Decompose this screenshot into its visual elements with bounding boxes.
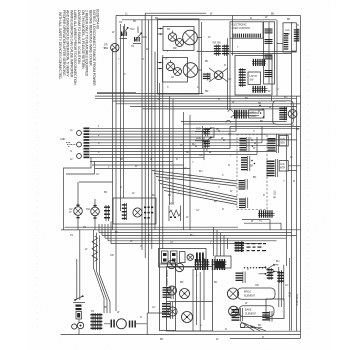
supply wire bundle <box>90 128 300 157</box>
limit switch S2 <box>133 27 148 44</box>
sensor plug wire labels <box>250 137 256 150</box>
motor wire labels <box>258 102 264 118</box>
right spine vertical wires <box>277 16 301 335</box>
connector comb CN4 <box>239 198 248 209</box>
door switch row lugs <box>196 253 204 262</box>
switch cluster extra marks <box>121 32 140 42</box>
surface element RR <box>173 39 184 51</box>
notes text block (rotated service notes) <box>58 9 100 86</box>
extra top speckle labels <box>112 16 300 183</box>
element comb lower-left <box>232 308 243 321</box>
relay contact K1 pole bar <box>203 128 210 136</box>
terminal block labels <box>60 129 73 161</box>
surface element RF <box>167 28 177 41</box>
power terminal block circle L2 <box>77 154 82 159</box>
staircase wire to P1 <box>64 157 92 230</box>
surface element LR <box>171 68 182 80</box>
ground symbol <box>66 143 76 147</box>
motor winding comb <box>279 107 287 121</box>
relay box verticals <box>193 258 204 331</box>
P3 label row <box>247 243 267 251</box>
infinite switch comb A <box>213 42 222 57</box>
resistor component right of switch box <box>169 203 181 222</box>
bus drop verticals <box>214 227 228 256</box>
door switch row box <box>159 249 207 268</box>
left bus vertical L1 <box>115 16 117 312</box>
connector comb CN2 <box>241 156 250 171</box>
clock display box <box>283 23 296 52</box>
surface element RF outer ring <box>183 30 198 45</box>
lower left wire <box>61 229 80 231</box>
oven lamp assembly <box>209 68 228 82</box>
latch box bottom comb <box>252 86 268 93</box>
wires dropping to oven lamp plug <box>94 230 111 313</box>
bundle turn wires lower <box>90 162 190 169</box>
bus link wire <box>230 125 301 127</box>
scan noise overlay <box>0 0 1 1</box>
motor feed wires <box>272 96 294 126</box>
relay pilot R2 <box>175 263 183 271</box>
lamp connector <box>203 73 210 81</box>
left vertical wire 3 <box>120 24 122 211</box>
bottom bus wire 3 <box>230 335 301 339</box>
harness label dots <box>192 128 232 157</box>
surface element LF outer ring <box>183 63 198 78</box>
door switch row lamp <box>187 254 193 260</box>
top power bus wire <box>116 15 301 17</box>
relay feed vertical <box>202 126 204 148</box>
center vertical bus wires <box>142 13 163 313</box>
broil element <box>227 288 275 299</box>
infinite switch comb B <box>222 45 229 57</box>
probe jack blob B <box>212 259 227 270</box>
relay pilot R3 <box>167 286 176 295</box>
left vertical wire 4 <box>123 26 125 198</box>
scattered wire labels mid <box>98 125 285 223</box>
surface unit box lower <box>163 58 188 83</box>
clock side connector <box>294 29 299 42</box>
terminal circle 2 <box>77 322 83 328</box>
lock plug wire labels <box>250 160 255 168</box>
lower horizontal bus wires <box>61 227 301 243</box>
harness plug P3 comb <box>235 242 245 253</box>
control board dashed outline <box>237 135 267 210</box>
surface unit box right <box>163 27 194 51</box>
left vertical wire 2 <box>112 48 114 230</box>
top stub wire <box>145 12 206 14</box>
connector comb CN1 <box>240 137 250 152</box>
element comb top <box>236 272 246 284</box>
mid horizontal bus wires <box>95 93 301 109</box>
latch box top comb <box>252 59 266 66</box>
oven light switch box <box>113 198 156 224</box>
surface element LF <box>165 58 175 71</box>
broil contact lug A <box>267 268 274 280</box>
scattered wire labels low <box>70 226 289 341</box>
broil contact <box>259 264 279 270</box>
surface unit outer box <box>158 19 200 94</box>
mid band wires right <box>181 122 301 171</box>
converge wires to bus <box>240 322 266 331</box>
connector comb CN3 <box>239 179 248 190</box>
convection motor box <box>273 101 293 124</box>
oven lamp bulb <box>116 319 126 329</box>
bottom-right verticals <box>279 258 290 331</box>
lamp feed verticals <box>78 182 95 230</box>
clock box pin comb <box>284 33 289 50</box>
console lamp DS2 <box>86 203 99 219</box>
thermal fuse <box>76 312 82 320</box>
switch box inner connector <box>122 203 127 220</box>
terminal crimp lugs <box>84 128 90 159</box>
switch box contacts <box>144 207 153 219</box>
relay contact K2 <box>195 137 215 143</box>
top bus wire 2 <box>122 19 277 21</box>
mid-right vertical wires <box>170 96 191 230</box>
power terminal block circle N <box>77 142 82 147</box>
time meter box <box>266 299 284 319</box>
oven lamp plug comb <box>90 310 102 330</box>
relay pilot R1 <box>167 260 175 268</box>
lamp left lug <box>111 320 115 328</box>
latch column connector B <box>162 302 173 319</box>
motor fan circle <box>288 110 297 119</box>
bottom lug contacts <box>76 305 82 311</box>
extra mid speckle labels <box>96 101 264 219</box>
wide comb CN7 <box>258 210 275 222</box>
relay pilot R4 <box>180 289 190 299</box>
door switch bottom <box>73 295 85 302</box>
control return wires <box>242 220 281 230</box>
bottom bus wire 1 <box>61 334 301 336</box>
broil contact lug B <box>277 271 284 283</box>
latch box left comb <box>239 68 246 87</box>
relay contact K1 <box>195 127 215 133</box>
relay pilot R6 <box>182 312 193 323</box>
bottom bus wire 2 <box>176 330 301 332</box>
clock link wires <box>277 43 297 51</box>
bake contact <box>259 271 279 277</box>
surface box right stubs <box>197 22 201 94</box>
scan artifact dotted column left <box>36 60 38 330</box>
surface box taps <box>158 28 164 70</box>
harness comb P5 <box>233 110 259 119</box>
bundle taps down <box>204 110 262 160</box>
latch column connector A <box>163 286 174 299</box>
door switch lamp <box>104 43 119 51</box>
latch column box <box>160 264 176 331</box>
connector left of switch box <box>104 205 110 221</box>
power terminal block circle L1 <box>77 131 82 136</box>
verticals control box to harness <box>228 16 233 111</box>
wire to console lamps <box>79 181 113 183</box>
relay contact K2 pole bar <box>203 140 210 148</box>
dotted terminal row <box>244 267 266 268</box>
element comb lower-right <box>262 311 272 322</box>
heater element zigzag <box>92 236 98 262</box>
fuse stubs <box>78 320 80 335</box>
control box pin comb <box>233 34 261 38</box>
junction ring <box>240 323 245 328</box>
sensor plug CN5 <box>268 135 289 154</box>
lamp right lug <box>129 321 136 328</box>
latch relay box <box>235 56 272 96</box>
switch cluster labels <box>119 21 135 48</box>
relay junction box <box>215 256 231 268</box>
limit switch S1 <box>120 24 135 39</box>
bake element <box>229 306 274 317</box>
terminal circle small <box>72 324 77 329</box>
latch relay inner box <box>248 72 261 85</box>
switch box lamp <box>133 208 142 217</box>
scan artifact dotted column right <box>307 55 309 335</box>
console lamp DS1 <box>69 203 82 219</box>
wire fan to control connectors <box>152 171 237 205</box>
bus left turn verticals <box>99 222 111 244</box>
bottom-left feed verticals <box>77 230 80 300</box>
staircase wire 2 <box>66 162 95 175</box>
electronic control box <box>230 22 263 38</box>
bake broil relay box <box>167 267 213 332</box>
door switch row contacts <box>162 251 186 263</box>
relay pilot R5 <box>168 307 177 316</box>
probe jack blob A <box>195 259 210 270</box>
lamp wires <box>104 313 166 335</box>
membrane ribbon box <box>264 22 275 84</box>
staircase wires above latch box <box>197 52 297 54</box>
harness label box <box>249 110 265 118</box>
lock motor plug CN6 <box>267 159 289 177</box>
relay box divider <box>167 301 213 303</box>
scattered wire labels top <box>118 13 275 102</box>
wire hop arcs <box>226 110 235 123</box>
